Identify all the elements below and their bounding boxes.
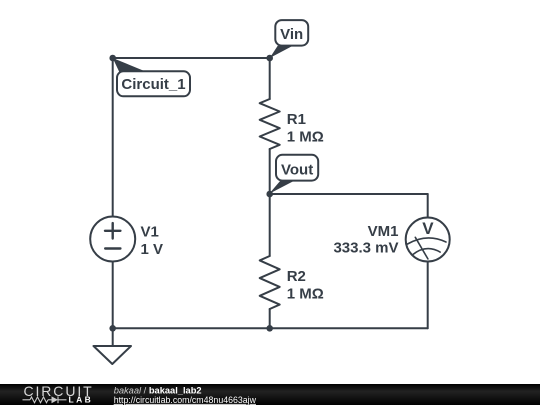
svg-text:1 MΩ: 1 MΩ xyxy=(287,128,324,145)
resistor R1 zigzag xyxy=(260,99,280,149)
svg-text:bakaal / bakaal_lab2: bakaal / bakaal_lab2 xyxy=(114,385,202,395)
node label Vout flag xyxy=(269,155,318,194)
wire bottom rail xyxy=(113,327,428,329)
logo schematic squiggle (wire + resistor + diode) xyxy=(23,396,67,403)
wire voltmeter top stub xyxy=(427,194,429,218)
wire Vout node to R2 top xyxy=(269,194,271,256)
wire voltmeter bottom stub xyxy=(427,262,429,329)
svg-text:V: V xyxy=(422,219,434,238)
V1 minus sign xyxy=(105,247,120,249)
svg-text:R1: R1 xyxy=(287,111,306,128)
wire R1 bottom to Vout node xyxy=(269,149,271,194)
resistor R2 zigzag xyxy=(260,256,280,309)
wire top horizontal (Circuit_1 node to Vin node) xyxy=(113,57,270,59)
svg-text:V1: V1 xyxy=(141,224,159,241)
wire left vertical upper (Circuit_1 node to V1 top) xyxy=(112,58,114,217)
svg-text:333.3 mV: 333.3 mV xyxy=(333,240,398,257)
wire Vout horizontal (Vout node to voltmeter branch) xyxy=(270,193,428,195)
svg-text:VM1: VM1 xyxy=(368,223,399,240)
voltmeter VM1 meter upper arc xyxy=(408,238,447,244)
wire ground stub xyxy=(112,328,114,346)
node Vin junction dot xyxy=(266,55,273,62)
node ground-rail junction dot (R2 bottom) xyxy=(266,325,273,332)
voltmeter VM1 meter lower arc xyxy=(412,249,440,255)
voltage source V1 circle xyxy=(90,217,135,262)
wire R2 bottom stub xyxy=(269,309,271,328)
ground symbol xyxy=(94,346,132,364)
node label Circuit_1 flag xyxy=(113,58,190,96)
wire Vin node to R1 top xyxy=(269,58,271,99)
svg-text:http://circuitlab.com/cm48nu46: http://circuitlab.com/cm48nu4663ajw xyxy=(114,395,257,405)
svg-text:R2: R2 xyxy=(287,268,306,285)
svg-text:Vout: Vout xyxy=(281,162,313,179)
svg-text:1 V: 1 V xyxy=(141,241,164,258)
footer black bar xyxy=(0,384,540,405)
node Vout junction dot xyxy=(266,191,273,198)
V1 plus sign xyxy=(105,223,120,238)
voltmeter VM1 circle xyxy=(406,218,450,262)
svg-text:LAB: LAB xyxy=(69,394,94,404)
voltmeter VM1 needle xyxy=(415,237,428,259)
svg-text:Circuit_1: Circuit_1 xyxy=(121,76,185,93)
node Circuit_1 junction dot xyxy=(109,55,116,62)
svg-text:1 MΩ: 1 MΩ xyxy=(287,285,324,302)
node label Vin flag xyxy=(270,20,308,58)
wire left vertical lower (V1 bottom to bottom rail) xyxy=(112,262,114,329)
node ground-rail junction dot (left) xyxy=(109,325,116,332)
svg-text:Vin: Vin xyxy=(280,26,303,43)
